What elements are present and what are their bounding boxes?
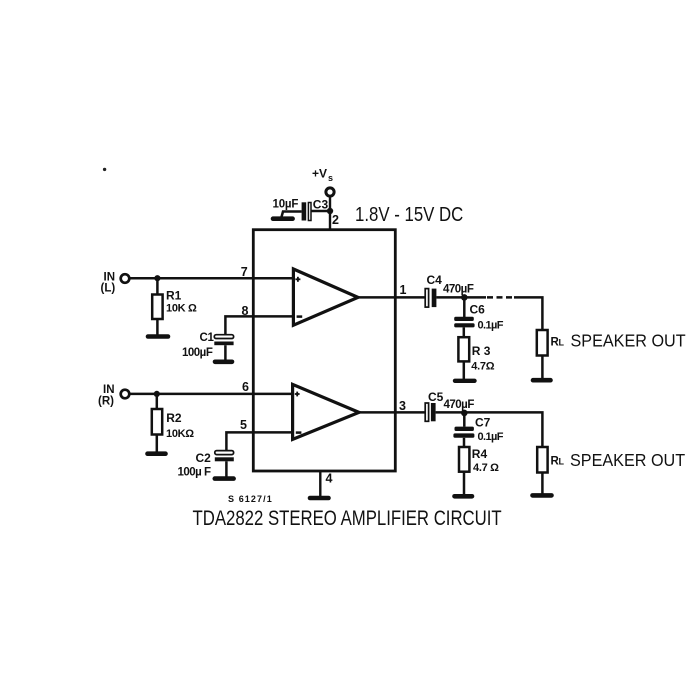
svg-text:470µF: 470µF (444, 399, 475, 411)
capacitor C1 (214, 335, 233, 346)
svg-text:SPEAKER OUT: SPEAKER OUT (571, 331, 687, 351)
svg-text:1.8V - 15V DC: 1.8V - 15V DC (355, 202, 463, 225)
svg-text:C1: C1 (200, 332, 215, 344)
svg-text:8: 8 (242, 304, 249, 318)
ground RL right (533, 493, 552, 498)
svg-text:4.7Ω: 4.7Ω (471, 361, 494, 373)
svg-text:R2: R2 (166, 411, 182, 425)
label IN (L) (101, 272, 116, 295)
wire R4 to ground (463, 472, 466, 495)
wire op-amp B output to C5 (pin 3) (359, 411, 425, 414)
svg-text:4.7 Ω: 4.7 Ω (473, 462, 499, 474)
wire output node L solid lead (464, 296, 486, 299)
wire C3 to supply junction (311, 210, 330, 213)
wire output node R to C7 (463, 413, 466, 427)
svg-text:1: 1 (400, 283, 407, 297)
node output L (461, 294, 468, 301)
capacitor C7 (453, 427, 474, 438)
resistor RL (right channel load) (537, 447, 547, 473)
ground R2 (148, 451, 166, 456)
ground RL left (533, 378, 551, 383)
svg-text:s: s (328, 173, 333, 183)
ground R1 (148, 334, 168, 339)
svg-text:+V: +V (312, 167, 327, 181)
wire dashed link to speaker L (487, 296, 514, 299)
op-amp B (right channel) (293, 384, 359, 439)
wire supply terminal to pin 2 (329, 196, 331, 230)
capacitor C5 (425, 403, 435, 421)
op-amp B plus marker (295, 392, 300, 397)
resistor R1 (152, 295, 162, 320)
label RL (left) (551, 337, 565, 349)
svg-text:470µF: 470µF (443, 284, 474, 296)
ground C1 (215, 359, 232, 364)
input terminal IN (R) (121, 390, 130, 399)
ground R4 (455, 494, 473, 499)
svg-text:C5: C5 (428, 390, 444, 404)
ground R3 (455, 379, 475, 383)
svg-text:4: 4 (326, 472, 333, 486)
svg-text:(L): (L) (101, 283, 116, 295)
node output R (461, 410, 468, 417)
svg-text:100µ F: 100µ F (178, 467, 212, 479)
ground (supply bypass) (273, 216, 293, 221)
svg-text:7: 7 (241, 265, 248, 279)
supply label +Vs (312, 167, 333, 184)
node input R junction (154, 391, 160, 397)
ground C2 (215, 476, 234, 481)
ground pin 4 (310, 496, 329, 501)
svg-text:L: L (559, 457, 565, 467)
capacitor C2 (215, 451, 234, 462)
svg-text:R4: R4 (472, 447, 488, 461)
wire R3 to ground (463, 361, 466, 379)
wire output node L to C6 (463, 297, 466, 317)
wire speaker R drop (464, 412, 542, 447)
supply terminal +Vs (326, 188, 334, 196)
node input L junction (154, 275, 160, 281)
wire junction to R1 (156, 278, 159, 294)
op-amp B minus marker (296, 431, 302, 434)
wire pin 5 to op-amp B inverting input (226, 432, 292, 450)
svg-text:C6: C6 (470, 303, 486, 317)
wire RL to ground (541, 356, 544, 379)
svg-text:2: 2 (332, 213, 339, 227)
label IN (R) (98, 384, 115, 408)
wire C7 to R4 (463, 438, 466, 447)
IC U1 TDA2822 package outline (253, 230, 395, 471)
svg-text:C4: C4 (427, 273, 443, 287)
svg-text:5: 5 (240, 418, 247, 432)
wire junction to R2 (156, 394, 159, 409)
svg-text:0.1µF: 0.1µF (478, 320, 504, 332)
svg-text:100µF: 100µF (182, 347, 213, 359)
svg-text:S 6127/1: S 6127/1 (228, 494, 273, 504)
svg-text:10K Ω: 10K Ω (166, 303, 197, 315)
capacitor C4 (425, 289, 436, 308)
wire R1 to ground (156, 319, 159, 335)
wire RL right to ground (541, 473, 544, 494)
svg-text:10KΩ: 10KΩ (166, 428, 194, 440)
op-amp A (left channel) (293, 269, 358, 325)
svg-text:C2: C2 (196, 451, 212, 465)
wire C5 to output node R (436, 411, 465, 414)
wire op-amp A output to C4 (pin 1) (358, 296, 425, 299)
resistor R4 (459, 447, 469, 472)
svg-text:L: L (559, 338, 565, 348)
svg-text:R1: R1 (166, 289, 182, 303)
svg-text:6: 6 (242, 380, 249, 394)
wire pin 4 to ground (319, 471, 321, 496)
capacitor C3 (302, 202, 311, 220)
svg-text:C7: C7 (475, 416, 491, 430)
resistor R3 (458, 337, 469, 361)
capacitor C6 (454, 317, 474, 328)
wire IN (R) to pin 6 and op-amp B non-inverting input (129, 393, 292, 396)
node supply junction (327, 208, 333, 214)
svg-text:SPEAKER OUT: SPEAKER OUT (570, 450, 686, 470)
op-amp A minus marker (297, 315, 303, 318)
svg-text:10µF: 10µF (273, 199, 299, 211)
wire speaker L drop (514, 297, 542, 330)
resistor RL (left channel load) (537, 330, 548, 356)
svg-text:3: 3 (399, 399, 406, 413)
op-amp A plus marker (295, 277, 300, 282)
svg-text:TDA2822 STEREO AMPLIFIER CIRCU: TDA2822 STEREO AMPLIFIER CIRCUIT (192, 507, 501, 530)
svg-text:C3: C3 (313, 198, 329, 212)
svg-text:(R): (R) (98, 396, 114, 408)
resistor R2 (152, 409, 162, 435)
stray mark (103, 168, 106, 171)
svg-text:R 3: R 3 (472, 344, 491, 358)
wire C2 to ground (225, 461, 228, 476)
wire C3 to ground (282, 212, 302, 218)
label RL (right) (551, 456, 565, 468)
wire C4 to output node L (436, 296, 464, 299)
svg-text:0.1µF: 0.1µF (478, 431, 504, 443)
svg-text:IN: IN (103, 384, 115, 396)
input terminal IN (L) (121, 274, 130, 283)
wire pin 8 to op-amp A inverting input (225, 316, 293, 334)
wire R2 to ground (156, 435, 159, 453)
wire IN (L) to pin 7 and op-amp A non-inverting input (129, 277, 293, 280)
wire C1 to ground (224, 345, 227, 360)
wire C6 to R3 (463, 327, 466, 337)
